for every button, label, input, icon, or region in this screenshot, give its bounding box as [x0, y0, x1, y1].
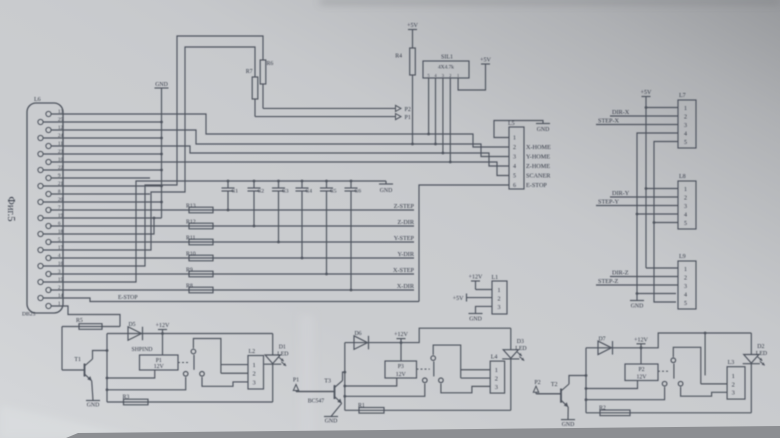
wire DIR-Z to L9	[610, 276, 678, 278]
wire +12V to coil P3	[400, 343, 402, 361]
net label DIR-Y	[612, 190, 630, 197]
wire contact common to L3 pin 2 (right)	[673, 347, 727, 384]
wire +12V rail (right)	[586, 333, 751, 348]
relay coil P2	[625, 364, 658, 381]
net label Z-HOME (L5)	[526, 163, 550, 170]
svg-text:D5: D5	[129, 322, 136, 328]
svg-text:L4: L4	[491, 355, 498, 361]
resistor R13	[186, 203, 213, 212]
relay contact linkage (middle)	[417, 368, 430, 370]
wire DB25 pin 1 to R5	[51, 306, 120, 327]
connector L5	[509, 127, 524, 189]
resistor R10	[186, 251, 213, 260]
relay contact common (middle)	[431, 356, 436, 361]
ground GND (L5 pin 1)	[536, 124, 550, 134]
svg-text:P2: P2	[534, 380, 540, 386]
svg-text:3: 3	[513, 155, 516, 161]
wire emitter to GND (middle)	[331, 403, 342, 416]
svg-text:GND: GND	[380, 188, 393, 194]
svg-text:1: 1	[457, 73, 459, 78]
svg-text:T1: T1	[74, 357, 81, 363]
wire R5 to T1 base	[61, 327, 63, 371]
svg-text:4: 4	[684, 293, 687, 299]
wire bus to L8 pin 5	[654, 222, 678, 224]
svg-text:5: 5	[684, 140, 687, 146]
svg-text:3: 3	[498, 305, 501, 311]
label DB25	[22, 312, 36, 318]
wire LED to R line (middle)	[510, 359, 512, 410]
net label SCANER (L5)	[526, 173, 551, 180]
svg-text:2: 2	[732, 381, 735, 388]
svg-text:D6: D6	[355, 331, 362, 337]
wire +5V bus (right)	[645, 97, 678, 269]
connector L3	[727, 367, 745, 399]
wire SIL1 pin 2 to bundle	[449, 78, 452, 163]
wire GND bus stem	[161, 88, 163, 218]
svg-text:Y-STEP: Y-STEP	[394, 235, 415, 242]
svg-text:Z-DIR: Z-DIR	[398, 219, 415, 226]
svg-text:2: 2	[513, 145, 516, 151]
connector L8	[678, 181, 696, 229]
ground GND (right section)	[630, 294, 644, 310]
net label Y-STEP	[394, 235, 415, 242]
resistor R1	[358, 403, 384, 413]
svg-text:4X4.7k: 4X4.7k	[438, 65, 454, 71]
svg-text:+5V: +5V	[407, 23, 418, 29]
wire L5 pin 1 to GND bracket	[494, 121, 543, 138]
svg-text:1: 1	[495, 367, 498, 374]
svg-text:R7: R7	[246, 69, 253, 75]
svg-text:D2: D2	[757, 344, 764, 350]
svg-text:L6: L6	[34, 97, 41, 103]
svg-text:C6: C6	[355, 189, 362, 195]
net label X-HOME (L5)	[526, 144, 551, 151]
wire bus to L9 pin 4	[637, 293, 676, 295]
wire rail corner to LED (right)	[750, 333, 752, 355]
wire DB25 to Z-STEP line	[50, 209, 414, 211]
resistor R11	[186, 235, 213, 244]
resistor R2	[599, 405, 630, 415]
wire +5V to L7 pin 1	[646, 107, 678, 109]
wire emitter to GND (left)	[92, 381, 93, 401]
svg-text:3: 3	[684, 123, 687, 129]
resistor R7	[246, 69, 258, 99]
capacitor C4	[296, 180, 309, 260]
svg-text:1: 1	[513, 136, 516, 142]
svg-text:E-STOP: E-STOP	[118, 295, 138, 301]
svg-text:Y-HOME: Y-HOME	[526, 154, 550, 161]
wire contact common to L2 pins 1-2 (left)	[193, 339, 248, 374]
svg-text:L2: L2	[249, 349, 256, 355]
svg-text:R10: R10	[186, 251, 196, 257]
wire rail corner to LED (middle)	[510, 328, 512, 350]
wire DB25 pin 19 to GND bus	[43, 217, 162, 219]
resistor R9	[186, 267, 213, 276]
svg-text:P1: P1	[293, 378, 299, 384]
svg-text:SCANER: SCANER	[526, 173, 551, 180]
svg-text:C5: C5	[330, 189, 337, 195]
wire L5 pin 6 to E-STOP line	[419, 185, 509, 302]
diode D6	[354, 331, 369, 349]
wire collector to node (right)	[569, 374, 587, 384]
relay contact NC (right)	[678, 381, 683, 386]
wire +12V to coil P2	[640, 348, 642, 364]
wire +5V to L8 pin 1	[646, 188, 678, 190]
svg-text:5: 5	[428, 73, 430, 78]
net label Z-STEP	[394, 203, 415, 210]
svg-text:X-STEP: X-STEP	[393, 267, 415, 274]
wire DB25 pin 24 to GND bus	[43, 137, 163, 140]
wire DB25 to X-DIR line	[50, 289, 414, 291]
wire SIL1 pin 3 to bundle	[442, 78, 445, 154]
svg-text:+12V: +12V	[156, 323, 170, 329]
svg-text:R13: R13	[186, 203, 196, 209]
resistor R6	[260, 60, 273, 84]
svg-text:Y-DIR: Y-DIR	[398, 251, 415, 258]
svg-text:L1: L1	[492, 275, 499, 281]
svg-text:P3: P3	[398, 364, 404, 370]
net label Y-HOME (L5)	[526, 154, 550, 161]
wire DIR-Y to L8	[610, 196, 678, 198]
svg-text:C2: C2	[258, 189, 265, 195]
svg-text:P2: P2	[405, 107, 411, 113]
svg-text:R1: R1	[358, 403, 365, 409]
net label Z-DIR	[398, 219, 415, 226]
relay contact common (left)	[191, 349, 196, 354]
svg-text:L5: L5	[508, 121, 515, 127]
wire SIL1 common pin to +5V	[458, 64, 485, 90]
svg-text:T3: T3	[324, 379, 331, 385]
label C1	[232, 189, 239, 195]
svg-text:R2: R2	[599, 405, 606, 411]
connector L4	[490, 361, 504, 393]
svg-text:LED: LED	[515, 346, 526, 352]
wire STEP-Z to L9	[596, 284, 678, 286]
ground GND (L1)	[469, 314, 483, 323]
relay contact armature (middle)	[433, 361, 435, 376]
wire DB25 pin 21 to GND bus	[43, 185, 163, 188]
diode D7	[598, 336, 613, 354]
diode D5	[128, 322, 143, 340]
power +12V (left)	[156, 323, 170, 335]
svg-text:2: 2	[684, 196, 687, 202]
ground GND (right)	[561, 420, 575, 428]
svg-text:R6: R6	[267, 61, 274, 67]
svg-text:GND: GND	[469, 317, 482, 323]
relay contact linkage (left)	[178, 362, 190, 364]
svg-text:+5V: +5V	[480, 58, 491, 64]
svg-text:P2: P2	[638, 367, 644, 373]
svg-text:D3: D3	[517, 339, 524, 345]
power +5V (L1)	[453, 294, 467, 303]
wire DB25 pin 23 to GND bus	[43, 153, 163, 156]
relay contact armature (right)	[673, 364, 675, 379]
svg-text:3: 3	[732, 390, 735, 397]
resistor R12	[186, 219, 213, 228]
svg-text:1: 1	[732, 373, 735, 380]
node P1 (input)	[293, 378, 335, 392]
net label X-STEP	[393, 267, 415, 274]
svg-text:12V: 12V	[154, 364, 165, 370]
svg-text:5: 5	[513, 174, 516, 180]
relay contact NC (middle)	[439, 378, 444, 383]
capacitor C2	[248, 180, 261, 228]
label L9	[679, 254, 686, 260]
power +12V (L1)	[469, 275, 483, 290]
transistor T1	[62, 357, 93, 381]
wire +12V rail (left)	[107, 333, 273, 335]
wire DB25 pin 12 to bundle line B2	[51, 130, 509, 157]
svg-text:12V: 12V	[637, 374, 648, 380]
wire contact NC to L4 pin 3 (middle)	[441, 384, 490, 393]
svg-text:R11: R11	[186, 235, 196, 241]
wire +12V node vertical (right)	[585, 348, 587, 413]
wire LED to R line (right)	[750, 364, 752, 413]
label C4	[306, 189, 313, 195]
svg-text:2: 2	[495, 375, 498, 382]
wire DB25 pin 18 riser to pin 19 line	[43, 217, 155, 234]
power +12V (right)	[634, 337, 648, 349]
resistor R5	[62, 318, 120, 329]
wire DB25 pin 25 to GND bus	[43, 121, 163, 124]
LED D3	[502, 339, 526, 360]
relay coil P1	[140, 355, 179, 370]
svg-text:L8: L8	[679, 174, 686, 180]
svg-text:+5V: +5V	[453, 296, 464, 302]
svg-text:2: 2	[684, 115, 687, 121]
net label STEP-Z	[598, 278, 619, 285]
svg-text:GND: GND	[631, 304, 644, 310]
capacitor C1	[222, 180, 235, 212]
svg-text:C1: C1	[232, 189, 239, 195]
svg-text:DIR-Y: DIR-Y	[612, 190, 630, 197]
transistor T3	[296, 379, 343, 404]
wire coil P2 return	[585, 381, 638, 390]
wire contact NC to L2 pin 3 (left)	[202, 377, 248, 386]
svg-text:4: 4	[513, 164, 516, 170]
svg-text:GND: GND	[537, 127, 550, 133]
net label Y-DIR	[398, 251, 415, 258]
power +12V (middle)	[394, 332, 408, 344]
wire R6 to P2	[263, 84, 395, 108]
svg-text:GND: GND	[155, 82, 168, 88]
figure caption Фиг.5	[5, 197, 16, 222]
svg-text:Фиг.5: Фиг.5	[5, 197, 16, 222]
svg-text:SHPIND: SHPIND	[132, 347, 153, 353]
wire contact NO return (left)	[106, 377, 186, 391]
label C3	[282, 189, 289, 195]
svg-text:1: 1	[684, 106, 687, 112]
net label X-DIR	[397, 283, 415, 290]
wire DB25 pin 22 to GND bus	[43, 169, 163, 172]
svg-text:GND: GND	[325, 419, 338, 425]
wire LED to R line (left)	[272, 364, 274, 402]
wire SIL1 pin 4 to bundle	[434, 78, 437, 145]
label L8	[679, 174, 686, 180]
svg-text:3: 3	[684, 284, 687, 290]
wire STEP-Y to L8	[596, 205, 678, 207]
svg-text:+5V: +5V	[641, 90, 652, 96]
wire R4 to bundle line B2	[411, 75, 414, 145]
svg-text:2: 2	[684, 276, 687, 282]
net label E-STOP (L5)	[526, 182, 547, 189]
svg-text:1: 1	[253, 362, 256, 369]
label L5	[508, 121, 515, 127]
svg-text:DB25: DB25	[22, 312, 36, 318]
svg-text:DIR-X: DIR-X	[612, 109, 630, 116]
wire rail corner to LED (left)	[272, 334, 274, 356]
wire contact NO return (middle)	[343, 384, 424, 398]
wire DB25 pin 11 to bundle line B3	[51, 146, 509, 166]
wire DB25 pin 20 to GND bus	[43, 201, 163, 204]
svg-text:6: 6	[513, 183, 516, 189]
wire SIL1 pin 5 to bundle	[427, 78, 430, 135]
power +5V (stepper connectors)	[641, 90, 652, 97]
wire R7 to P1	[255, 99, 395, 117]
label L6	[34, 97, 41, 103]
resistor R8	[186, 283, 213, 292]
svg-text:D7: D7	[599, 336, 606, 342]
svg-text:T2: T2	[551, 382, 558, 388]
svg-text:C4: C4	[306, 189, 313, 195]
wire L3 pin 1 to rail	[704, 332, 707, 376]
wire pin-5 bus (right)	[653, 142, 678, 303]
svg-text:+12V: +12V	[469, 275, 483, 281]
relay contact NO (middle)	[423, 378, 428, 383]
wire DB25 to Y-DIR line	[50, 257, 414, 259]
svg-text:L9: L9	[679, 254, 686, 260]
svg-text:12V: 12V	[396, 372, 407, 378]
svg-text:DIR-Z: DIR-Z	[612, 269, 629, 276]
resistor network SIL1 4X4.7k	[423, 61, 469, 78]
wire emitter-node to R1 line (middle)	[345, 409, 511, 411]
wire STEP-X to L7	[596, 124, 678, 126]
svg-text:1: 1	[498, 288, 501, 294]
connector L6 (DB25 parallel port)	[27, 103, 63, 313]
relay coil P3	[385, 361, 417, 378]
wire pin-4 ground bus (right)	[636, 133, 678, 295]
label C6	[355, 189, 362, 195]
relay contact armature (left)	[193, 355, 195, 370]
relay contact NO (left)	[183, 372, 188, 377]
svg-text:2: 2	[449, 73, 451, 78]
svg-text:LED: LED	[277, 352, 288, 358]
label L4	[491, 355, 498, 361]
wire DB25 pin 9	[51, 177, 150, 179]
svg-text:STEP-X: STEP-X	[598, 117, 620, 124]
svg-text:STEP-Z: STEP-Z	[598, 278, 619, 285]
wire +12V to L1 pin 1	[476, 289, 493, 291]
svg-text:Z-HOME: Z-HOME	[526, 163, 550, 170]
transistor T2	[537, 382, 569, 407]
svg-text:BC547: BC547	[308, 399, 325, 405]
wire DB25 pin 16 to R6 (outer top loop)	[43, 36, 263, 266]
relay contact NO (right)	[662, 381, 667, 386]
svg-text:SIL1: SIL1	[441, 55, 453, 61]
svg-text:R3: R3	[123, 395, 130, 401]
svg-text:L7: L7	[679, 93, 686, 99]
svg-text:2: 2	[498, 296, 501, 302]
svg-text:1: 1	[684, 267, 687, 273]
svg-text:X-HOME: X-HOME	[526, 144, 551, 151]
svg-text:R9: R9	[186, 267, 193, 273]
label L3	[728, 360, 735, 366]
relay contact linkage (right)	[658, 370, 670, 372]
wire +12V node vertical (middle)	[344, 343, 346, 411]
wire +5V to L1 pin 2	[467, 297, 493, 299]
wire DB25 to X-STEP line	[50, 273, 414, 275]
svg-text:R8: R8	[186, 283, 193, 289]
label SHPIND	[132, 347, 153, 353]
connector L9	[678, 261, 696, 309]
wire collector to node (left)	[93, 349, 109, 359]
svg-text:P1: P1	[405, 115, 411, 121]
wire DB25 pin 8	[51, 193, 150, 195]
wire bus to L8 pin 4	[637, 213, 678, 215]
connector L2	[248, 356, 264, 390]
svg-text:L3: L3	[728, 360, 735, 366]
label C2	[258, 189, 265, 195]
power +5V (SIL1 common)	[480, 58, 491, 65]
capacitor C3	[272, 180, 285, 244]
wire DB25 pin 10 to bundle line B4	[51, 162, 509, 176]
wire capacitor ground bus	[228, 180, 386, 182]
svg-text:STEP-Y: STEP-Y	[598, 198, 620, 205]
wire +12V node vertical (left)	[106, 334, 108, 403]
svg-text:R4: R4	[395, 54, 402, 60]
relay contact common (right)	[671, 358, 676, 363]
label L2	[249, 349, 256, 355]
label L7	[679, 93, 686, 99]
node P2	[396, 105, 411, 113]
svg-text:3: 3	[495, 384, 498, 391]
svg-text:5: 5	[684, 301, 687, 307]
svg-text:LED: LED	[756, 351, 767, 357]
connector L1	[492, 281, 507, 314]
svg-text:X-DIR: X-DIR	[397, 283, 415, 290]
wire coil P1 return	[106, 370, 155, 379]
ground GND (parallel port)	[155, 82, 169, 88]
wire emitter-node to R2 line (right)	[586, 412, 751, 414]
wire DB25 pin 14 to E-STOP line	[43, 298, 419, 302]
wire collector to node (middle)	[343, 371, 347, 381]
svg-text:C3: C3	[282, 189, 289, 195]
svg-text:4: 4	[684, 213, 687, 219]
wire DB25 to Z-DIR line	[50, 225, 414, 227]
resistor R3	[123, 395, 149, 405]
ground GND (capacitor bus)	[379, 181, 393, 194]
svg-text:3: 3	[253, 379, 256, 386]
label L1	[492, 275, 499, 281]
net label STEP-X	[598, 117, 620, 124]
label SIL1	[441, 55, 453, 61]
svg-text:3: 3	[684, 204, 687, 210]
svg-text:R5: R5	[76, 318, 83, 324]
node P1	[396, 114, 411, 122]
svg-text:2: 2	[253, 371, 256, 378]
DB25 pin numbers 13..1	[58, 110, 64, 307]
node P2 (input)	[533, 380, 561, 394]
capacitor C6	[345, 180, 358, 292]
wire +12V to coil P1	[162, 334, 164, 356]
wire emitter to GND (right)	[567, 407, 569, 420]
svg-text:4: 4	[684, 132, 687, 138]
wire coil P3 return	[343, 378, 396, 387]
capacitor C5	[320, 180, 333, 276]
svg-text:1: 1	[684, 187, 687, 193]
wire emitter-node to R3 line (left)	[107, 401, 273, 403]
svg-text:GND: GND	[87, 403, 100, 409]
